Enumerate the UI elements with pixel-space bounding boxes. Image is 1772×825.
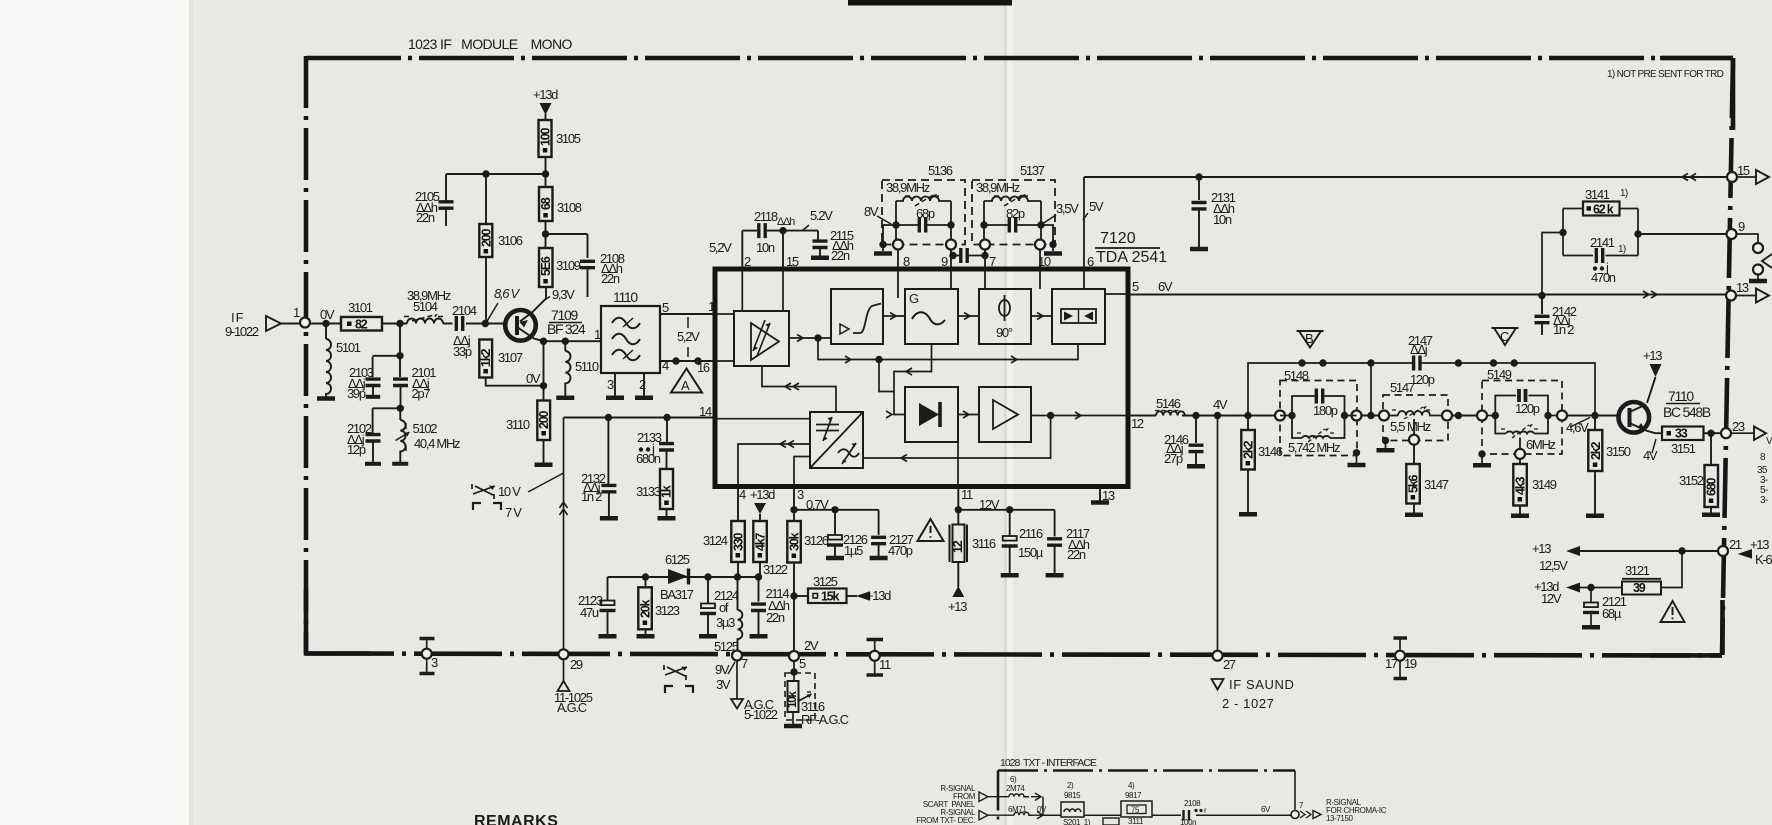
- junction: [1192, 412, 1199, 419]
- svg-text:27p: 27p: [1164, 451, 1183, 466]
- filter 5136: [874, 163, 965, 254]
- wire pin 10: [1039, 250, 1041, 290]
- junction pin3/15k: [790, 592, 797, 599]
- svg-text:470p: 470p: [888, 543, 913, 558]
- amplifier block video out: [979, 387, 1031, 442]
- module border bottom: [306, 654, 1722, 656]
- wire: [446, 157, 546, 187]
- pin 7 on bottom border: [715, 651, 748, 693]
- junction: [1244, 412, 1251, 419]
- svg-text:2V: 2V: [804, 638, 819, 653]
- TXT output labels: [1326, 798, 1387, 823]
- wire AFC right to video line: [863, 416, 1051, 459]
- wire demod input routing: [879, 360, 905, 415]
- svg-text:5146: 5146: [1156, 396, 1181, 411]
- A.G.C output 5-1022: [731, 661, 778, 723]
- wire AFC network tap: [1542, 233, 1563, 296]
- wire pin 14 inside: [715, 418, 810, 420]
- junction: [1214, 412, 1221, 419]
- svg-text:7110: 7110: [1668, 388, 1694, 404]
- wire AFC left to pin 3: [794, 457, 810, 487]
- capacitor 2131 10n: [1190, 177, 1236, 249]
- block G gain: [905, 289, 958, 344]
- svg-text:ΔΔh: ΔΔh: [777, 216, 795, 228]
- svg-text:180p: 180p: [1313, 403, 1338, 418]
- svg-text:S201 1): S201 1): [1063, 818, 1091, 825]
- svg-text:100n: 100n: [1180, 818, 1196, 825]
- junction: [396, 320, 403, 327]
- junction: [1587, 584, 1594, 591]
- svg-text:K-6: K-6: [1755, 552, 1772, 567]
- left scan margin: [0, 0, 189, 825]
- wire to 2103/2101: [373, 324, 400, 378]
- inductor 5146: [1155, 396, 1185, 416]
- junction: [831, 506, 838, 513]
- capacitor 2101 2p7: [393, 365, 436, 408]
- AFC ident block: [810, 412, 863, 468]
- svg-text:62 k: 62 k: [1593, 203, 1614, 217]
- inductor 5102 40,4 MHz: [392, 420, 460, 464]
- svg-text:38,9MHz: 38,9MHz: [976, 180, 1020, 195]
- svg-text:5136: 5136: [928, 163, 953, 178]
- svg-text:3124: 3124: [703, 533, 728, 548]
- limiter block: [831, 289, 883, 344]
- node B marker: [1297, 331, 1324, 348]
- svg-text:39p: 39p: [347, 386, 366, 401]
- resistor 3121: [1580, 551, 1682, 595]
- svg-text:1k2: 1k2: [479, 348, 493, 367]
- potentiometer 3116 RF-AGC: [784, 661, 849, 727]
- svg-text:7120: 7120: [1100, 230, 1136, 247]
- inductor 5125: [714, 577, 742, 654]
- svg-text:22n: 22n: [831, 248, 850, 263]
- resistor 3123: [637, 577, 680, 636]
- svg-text:13: 13: [1736, 280, 1749, 295]
- amplifier block AGC amp: [734, 311, 789, 366]
- node 4,6V: [1566, 418, 1590, 436]
- wire TXT right vertical: [1294, 771, 1296, 810]
- node 3,5V pointer: [1042, 201, 1079, 224]
- capacitor coupling 5136-5137: [949, 248, 988, 263]
- svg-text:21: 21: [1729, 537, 1742, 552]
- svg-text:3123: 3123: [655, 603, 680, 618]
- svg-text:ΔΔj: ΔΔj: [1410, 342, 1428, 357]
- resistor 3152: [1679, 433, 1720, 515]
- junction: [1455, 359, 1462, 366]
- svg-text:C: C: [1500, 329, 1509, 344]
- svg-text:BF 324: BF 324: [547, 321, 586, 337]
- wire 5V rail: [1084, 176, 1732, 178]
- svg-text:22n: 22n: [766, 610, 785, 625]
- junction base node: [1591, 412, 1598, 419]
- svg-text:5E6: 5E6: [539, 256, 553, 276]
- svg-text:330: 330: [731, 532, 745, 551]
- capacitor 2142 1n2: [1535, 296, 1577, 338]
- svg-text:2 - 1027: 2 - 1027: [1222, 696, 1275, 711]
- junction: [642, 573, 649, 580]
- wire pin 14 rail: [564, 417, 716, 419]
- IF input port 9-1022: [225, 310, 300, 339]
- svg-text:680: 680: [1705, 477, 1719, 496]
- op-amp IC 7120 TDA2541 outline: [715, 230, 1167, 487]
- junction: [322, 320, 329, 327]
- svg-text:3150: 3150: [1606, 444, 1631, 459]
- svg-text:17: 17: [1385, 656, 1398, 671]
- wire G bottom routing: [894, 344, 932, 392]
- svg-text:+13d: +13d: [533, 87, 558, 102]
- svg-text:27: 27: [1223, 657, 1236, 672]
- svg-text:11: 11: [879, 657, 891, 672]
- svg-text:29: 29: [570, 657, 583, 672]
- svg-text:2108: 2108: [1184, 799, 1201, 808]
- svg-text:3111: 3111: [1128, 817, 1144, 825]
- wire AGC amp bottom to AFC top: [762, 366, 836, 412]
- junction: [1367, 412, 1374, 419]
- svg-text:5-1022: 5-1022: [744, 707, 778, 722]
- small box partial: [1103, 818, 1119, 825]
- resistor 3122: [753, 521, 787, 577]
- junction: [704, 573, 711, 580]
- junction: [1006, 506, 1013, 513]
- capacitor 2116 150u: [1001, 510, 1044, 575]
- capacitor 2127 470p: [870, 532, 914, 558]
- svg-text:2141: 2141: [1590, 235, 1615, 250]
- svg-text:15: 15: [786, 254, 799, 269]
- svg-text:4V: 4V: [1643, 448, 1658, 463]
- svg-text:6): 6): [1010, 775, 1017, 784]
- svg-text:4,6V: 4,6V: [1566, 420, 1589, 435]
- svg-text:1110: 1110: [613, 289, 638, 305]
- svg-text:1k: 1k: [660, 485, 674, 498]
- svg-text:G: G: [909, 291, 919, 306]
- svg-text:BC 548B: BC 548B: [1663, 404, 1711, 420]
- wire pin 3 below IC: [793, 487, 795, 522]
- resistor 3151: [1662, 427, 1726, 457]
- svg-text:15: 15: [1737, 163, 1750, 178]
- svg-text:680n: 680n: [636, 451, 661, 466]
- module border top: [306, 56, 1733, 61]
- svg-text:5104: 5104: [413, 299, 438, 314]
- svg-text:470n: 470n: [1591, 270, 1616, 285]
- adjust mark near AGC line: [472, 484, 501, 510]
- svg-text:1µ5: 1µ5: [844, 543, 863, 558]
- capacitor 2114 22n: [750, 577, 790, 636]
- resistor 3108: [539, 187, 582, 248]
- svg-text:6MHz: 6MHz: [1526, 437, 1556, 452]
- module border right: [1722, 58, 1733, 655]
- junction: [755, 573, 762, 580]
- node 5,2V measurement: [677, 317, 700, 357]
- svg-text:3110: 3110: [506, 417, 530, 432]
- svg-text:8,6 V: 8,6 V: [494, 286, 520, 301]
- svg-text:3141: 3141: [1585, 187, 1610, 202]
- adjust mark near AGC: [664, 665, 693, 693]
- junction: [605, 414, 612, 421]
- svg-text:100: 100: [539, 127, 553, 146]
- svg-text:A.G.C: A.G.C: [557, 700, 587, 715]
- ground: [317, 398, 335, 400]
- junction: [1455, 412, 1462, 419]
- svg-text:15k: 15k: [821, 590, 840, 604]
- capacitor 2108 100n TXT: [1180, 799, 1207, 825]
- svg-text:9815: 9815: [1064, 791, 1081, 800]
- svg-text:2k2: 2k2: [1589, 441, 1603, 460]
- svg-text:2133: 2133: [637, 430, 662, 445]
- svg-text:200: 200: [479, 228, 493, 247]
- IC ground pin 13: [1091, 487, 1109, 503]
- capacitor 2133 680n: [636, 418, 674, 470]
- right margin cut texts: [1757, 436, 1772, 506]
- junction: [672, 357, 679, 364]
- svg-text:3147: 3147: [1424, 477, 1449, 492]
- svg-text:1): 1): [1618, 244, 1626, 255]
- scan artifact black bar top: [848, 0, 1012, 6]
- capacitor 2118 10n: [742, 209, 818, 255]
- svg-text:9817: 9817: [1125, 791, 1142, 800]
- svg-text:I F: I F: [231, 310, 244, 325]
- wire to 2102/5102: [373, 408, 401, 433]
- svg-text:75: 75: [1131, 806, 1140, 815]
- svg-text:12,5V: 12,5V: [1539, 558, 1568, 573]
- warning triangle bottom right: [1661, 601, 1685, 622]
- TXT input port bottom: [979, 811, 1014, 820]
- junction: [955, 506, 962, 513]
- wire feedback line to video switch: [818, 338, 1078, 360]
- svg-text:4V: 4V: [1213, 397, 1228, 412]
- junction: [1195, 173, 1202, 180]
- svg-text:10k: 10k: [787, 691, 799, 708]
- wire pin 7: [984, 250, 986, 290]
- wire phi to video switch: [1031, 315, 1052, 317]
- svg-text:3126: 3126: [804, 533, 829, 548]
- wire amp out: [789, 337, 831, 339]
- junction: [540, 382, 547, 389]
- wire network verticals: [1563, 209, 1638, 256]
- svg-text:3101: 3101: [348, 300, 373, 315]
- node 5.2V pointer: [802, 208, 833, 231]
- svg-text:9-1022: 9-1022: [225, 324, 259, 339]
- svg-text:12: 12: [951, 540, 965, 553]
- junction: [694, 357, 701, 364]
- svg-text:2): 2): [1067, 781, 1074, 790]
- svg-text:6V: 6V: [1261, 805, 1271, 814]
- svg-text:33: 33: [1675, 427, 1688, 441]
- resistor 3124: [703, 521, 745, 577]
- junction: [1707, 430, 1714, 437]
- wire pin 15 outside: [782, 231, 784, 269]
- svg-text:3149: 3149: [1532, 477, 1557, 492]
- A.G.C input 11-1025: [554, 660, 593, 716]
- svg-text:12V: 12V: [1541, 591, 1562, 606]
- junction: [1678, 547, 1685, 554]
- junction: [1298, 359, 1305, 366]
- filter 5148: [1275, 368, 1366, 465]
- pin 9 on right border: [1727, 219, 1772, 281]
- wire IC pin5 out: [1105, 293, 1128, 295]
- resistor 3110: [506, 401, 551, 464]
- svg-text:5147: 5147: [1390, 380, 1415, 395]
- svg-text:11: 11: [961, 487, 973, 502]
- pin 7 TXT: [1291, 801, 1321, 819]
- svg-text:2M74: 2M74: [1006, 784, 1025, 793]
- node 9,3V: [543, 287, 575, 302]
- svg-text:1): 1): [1620, 188, 1628, 199]
- junction: [482, 320, 489, 327]
- node A marker: [671, 369, 702, 394]
- capacitor 2105 22n: [415, 174, 454, 226]
- junction: [1634, 230, 1641, 237]
- wire pin 6: [1083, 177, 1085, 289]
- svg-text:TDA 2541: TDA 2541: [1096, 249, 1167, 266]
- resistor 3149: [1511, 459, 1557, 516]
- svg-text:5.2V: 5.2V: [810, 208, 833, 223]
- resistor 3147: [1405, 445, 1449, 515]
- transistor 7109 BF324: [505, 287, 586, 341]
- svg-text:8V: 8V: [864, 204, 879, 219]
- wire collector to 1110: [544, 340, 602, 342]
- wire video out to pin 12: [1031, 415, 1128, 417]
- svg-text:1023 IF MODULE MONO: 1023 IF MODULE MONO: [408, 36, 572, 52]
- resistor 3109: [539, 248, 581, 287]
- capacitor 2146 27p: [1164, 416, 1205, 467]
- junction: [790, 506, 797, 513]
- svg-text:19: 19: [1404, 656, 1417, 671]
- wire pin 12 video line: [1128, 415, 1618, 417]
- ground 1110 pin3: [606, 373, 624, 398]
- resonator 3116: [948, 510, 996, 614]
- wire 6V pin13 line: [1128, 294, 1731, 296]
- resistor 3125 15k: [794, 574, 891, 604]
- resistor 3107: [479, 340, 523, 378]
- svg-text:6125: 6125: [665, 552, 690, 567]
- svg-text:68: 68: [539, 197, 553, 210]
- wire sound carrier top rail: [1248, 363, 1595, 416]
- ground: [535, 464, 553, 466]
- junction: [397, 405, 404, 412]
- node 8V pointer: [864, 204, 891, 224]
- wire row1 to row2 link: [1042, 797, 1044, 816]
- wire pin 11 inside: [957, 442, 959, 487]
- svg-text:1028 TXT - INTERFACE: 1028 TXT - INTERFACE: [1000, 757, 1097, 769]
- inductor 5110: [565, 341, 599, 396]
- resistor 3141: [1583, 187, 1628, 217]
- svg-text:1) NOT PRE SENT FOR TRD: 1) NOT PRE SENT FOR TRD: [1607, 69, 1724, 80]
- svg-text:+13: +13: [948, 599, 967, 614]
- svg-text:3125: 3125: [813, 574, 838, 589]
- filter block 1110: [594, 289, 669, 392]
- svg-text:5,742 MHz: 5,742 MHz: [1288, 440, 1340, 455]
- svg-text:10n: 10n: [756, 240, 775, 255]
- wire TXT row: [1043, 814, 1295, 816]
- choke 6M71: [1008, 805, 1047, 819]
- svg-text:RF-A.G.C: RF-A.G.C: [801, 712, 849, 727]
- wire 0V rail: [486, 341, 544, 400]
- svg-text:16: 16: [697, 360, 710, 375]
- svg-text:3V: 3V: [716, 677, 731, 692]
- svg-text:3152: 3152: [1679, 473, 1704, 488]
- node +13d feed pin4 area: [750, 487, 775, 521]
- wire pin 9 line: [1638, 233, 1732, 235]
- svg-text:1n 2: 1n 2: [581, 489, 602, 504]
- svg-text:5,2V: 5,2V: [677, 329, 700, 344]
- svg-text:5102: 5102: [413, 421, 438, 436]
- junction: [396, 352, 403, 359]
- wire AGC vertical to pin 29: [563, 418, 565, 651]
- svg-text:0V: 0V: [526, 371, 541, 386]
- svg-text:FROM TXT- DEC.: FROM TXT- DEC.: [916, 816, 975, 825]
- wire limiter to G: [883, 315, 905, 317]
- svg-text:2k2: 2k2: [1241, 440, 1255, 459]
- wire pin 8: [897, 250, 899, 299]
- filter 5137: [972, 163, 1062, 254]
- junction: [1559, 229, 1566, 236]
- choke 2M74: [1006, 775, 1041, 800]
- resistor 3146: [1239, 416, 1283, 515]
- pin 5 on bottom border: [789, 638, 819, 671]
- node 5V: [1083, 199, 1104, 220]
- svg-text:10n: 10n: [1213, 212, 1232, 227]
- wire 12V rail: [958, 510, 1054, 537]
- TXT input labels: [916, 784, 976, 825]
- diode 6125 BA317: [660, 552, 694, 602]
- wire main IF line: [310, 323, 504, 325]
- filter 5147: [1377, 380, 1453, 450]
- wire 0,7V rail: [794, 510, 879, 535]
- junction: [1511, 359, 1518, 366]
- svg-text:REMARKS: REMARKS: [474, 813, 558, 825]
- junction: [482, 170, 489, 177]
- pin 21 on right border: [1718, 537, 1772, 567]
- svg-text:3151: 3151: [1671, 441, 1696, 456]
- inductor 5101: [326, 324, 361, 398]
- svg-text:V: V: [1766, 436, 1772, 447]
- block phi 90: [979, 289, 1031, 344]
- svg-text:MHz: MHz: [1407, 419, 1431, 434]
- border corner reinforcements: [1660, 58, 1733, 130]
- svg-text:90°: 90°: [996, 325, 1013, 340]
- node +13d feed top: [533, 87, 558, 120]
- svg-text:5110: 5110: [575, 359, 599, 374]
- transistor 7110 BC548B: [1619, 348, 1711, 463]
- junction: [562, 338, 569, 345]
- capacitor 2108 22n: [546, 234, 625, 297]
- svg-text:BA317: BA317: [660, 587, 694, 602]
- warning triangle: [918, 519, 944, 541]
- svg-text:12: 12: [1131, 416, 1144, 431]
- capacitor 2123 47u: [578, 593, 617, 636]
- svg-text:6V: 6V: [1158, 279, 1173, 294]
- svg-text:B: B: [1305, 331, 1313, 346]
- node +13 12,5V feed: [1532, 541, 1723, 573]
- svg-text:3122: 3122: [763, 562, 788, 577]
- wire pin 9: [950, 250, 952, 290]
- svg-text:0V: 0V: [1037, 805, 1047, 814]
- svg-text:23: 23: [1732, 419, 1745, 434]
- capacitor 2132 1n2: [581, 418, 618, 519]
- capacitor 2103 39p: [347, 365, 381, 401]
- svg-text:5,2V: 5,2V: [709, 240, 732, 255]
- pin 17/19 on bottom border: [1385, 638, 1417, 679]
- svg-text:20k: 20k: [638, 599, 652, 618]
- junction: [1319, 359, 1326, 366]
- svg-text:3-: 3-: [1760, 495, 1768, 506]
- svg-text:82: 82: [355, 318, 368, 332]
- wire 1110 pin4 to IC pin16: [660, 360, 715, 362]
- svg-text:3121: 3121: [1625, 563, 1650, 578]
- svg-text:39: 39: [1633, 581, 1646, 595]
- wire 1110 pin5 to IC pin1: [660, 313, 715, 315]
- svg-text:2118: 2118: [754, 209, 778, 224]
